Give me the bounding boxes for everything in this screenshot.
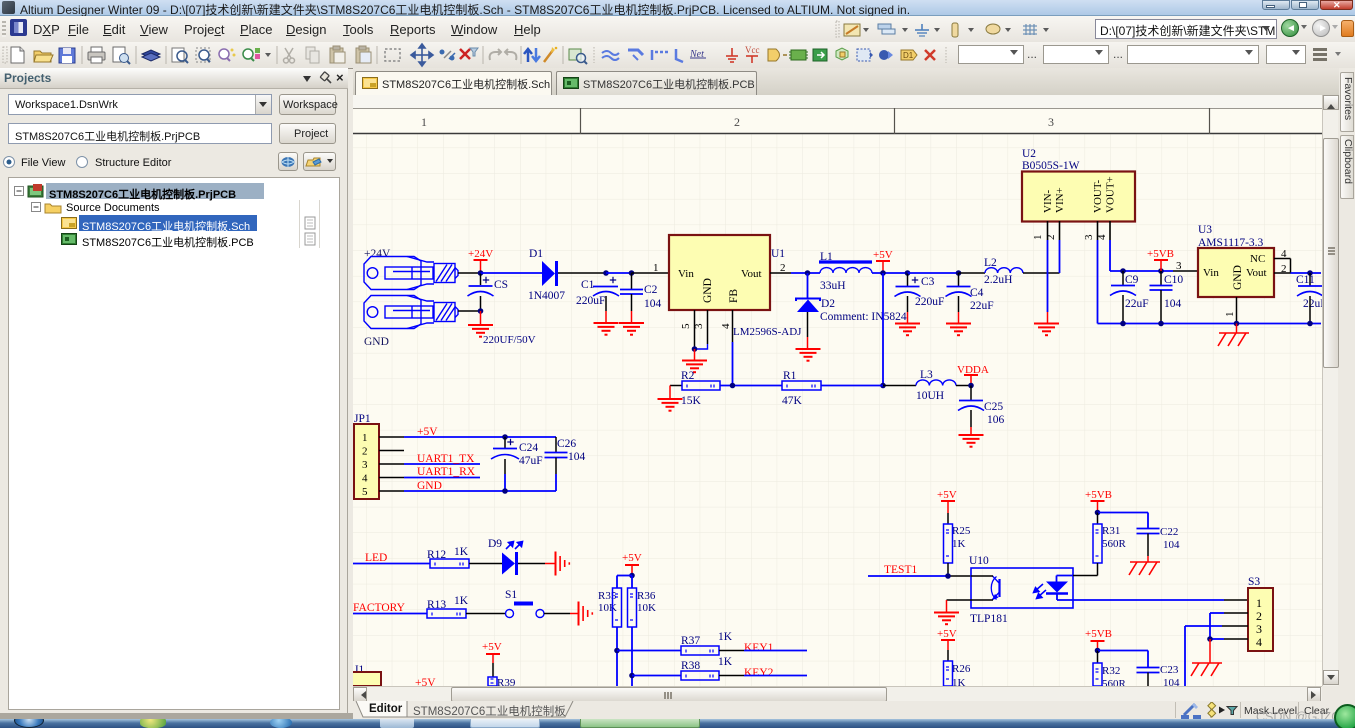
svg-text:+5V: +5V [417, 426, 438, 438]
icon designator tag [901, 50, 917, 60]
wire +5VB rail [1110, 270, 1173, 272]
icon cross ref [879, 50, 893, 60]
svg-text:104: 104 [1163, 539, 1180, 551]
capacitor C26 104 [555, 437, 557, 452]
wire C4 to L2 [959, 272, 986, 274]
svg-text:1: 1 [362, 432, 368, 444]
svg-text:+5V: +5V [937, 489, 957, 501]
svg-text:R32: R32 [1102, 665, 1120, 677]
svg-text:GND: GND [1232, 265, 1244, 290]
svg-text:R37: R37 [681, 635, 700, 647]
icon bus-entry [652, 50, 668, 60]
icon ic part [789, 50, 808, 60]
op-amp U1 LM2596S-ADJ regulator body [669, 235, 770, 310]
svg-text:Vout: Vout [741, 268, 762, 280]
ground below C1 [605, 311, 607, 323]
header [0, 68, 348, 89]
junction C9 top [1120, 268, 1126, 274]
svg-text:C11: C11 [1296, 274, 1315, 286]
workspace row [8, 94, 272, 115]
svg-text:1K: 1K [952, 538, 966, 550]
svg-text:1K: 1K [718, 656, 733, 668]
svg-text:D1: D1 [529, 248, 543, 260]
ground below U10 [934, 612, 959, 614]
junction +5V rail [880, 270, 886, 276]
ground below U2 pin1 [1034, 323, 1059, 325]
wire L1 to C3/C4 rail [872, 272, 908, 274]
windows taskbar [0, 719, 1355, 728]
svg-text:2: 2 [1256, 609, 1262, 623]
junction S3 gnd [1207, 636, 1213, 642]
power port +5VB [1154, 259, 1168, 261]
svg-text:U1: U1 [771, 248, 785, 260]
svg-text:15K: 15K [681, 395, 702, 407]
wire C1 to C2 [606, 272, 632, 274]
icon print [88, 47, 105, 63]
svg-text:C22: C22 [1160, 526, 1178, 538]
power port +5V above R35/R36 [625, 564, 639, 566]
svg-text:LM2596S-ADJ: LM2596S-ADJ [733, 326, 802, 338]
svg-text:R25: R25 [952, 525, 971, 537]
svg-text:33uH: 33uH [820, 280, 846, 292]
power port +24V [474, 259, 488, 261]
junction C25 [968, 383, 974, 389]
diode D2 IN5824 schottky [807, 273, 809, 298]
svg-text:2: 2 [362, 446, 368, 458]
signal ground after D9 [545, 563, 555, 565]
icon move [411, 44, 433, 66]
icon find-chip [569, 49, 587, 64]
wire KEY2 row [632, 675, 681, 677]
icon updown [524, 48, 540, 62]
svg-text:1: 1 [1032, 235, 1044, 241]
svg-text:3: 3 [1083, 234, 1095, 240]
svg-text:NC: NC [1250, 253, 1265, 265]
right vertical panel tabs [1339, 68, 1355, 713]
svg-text:C26: C26 [557, 438, 576, 450]
svg-text:L3: L3 [920, 369, 933, 381]
wire R31 to U10 [1073, 575, 1098, 577]
svg-text:C10: C10 [1164, 274, 1183, 286]
wire pin3 to pin5 junction [695, 344, 708, 349]
wire C3 to C4 [908, 272, 959, 274]
junction C1 [603, 270, 609, 276]
earth ground below S3 [1209, 639, 1211, 663]
svg-text:2: 2 [780, 262, 786, 274]
svg-text:+5VB: +5VB [1147, 248, 1174, 260]
svg-text:R36: R36 [637, 590, 656, 602]
left bottom gray strip [0, 713, 353, 719]
svg-text:C9: C9 [1125, 274, 1139, 286]
junction R31/C22 [1095, 510, 1101, 516]
wire U10 output to S3 [1057, 599, 1224, 601]
svg-text:1K: 1K [454, 595, 469, 607]
svg-text:1: 1 [421, 115, 427, 129]
capacitor C11 22uF [1309, 273, 1311, 286]
svg-text:220UF/50V: 220UF/50V [483, 334, 536, 346]
svg-text:106: 106 [987, 414, 1005, 426]
junction C24 bottom [502, 488, 508, 494]
capacitor C22 104 [1147, 513, 1149, 529]
tree area [8, 177, 340, 710]
U2 pin3 VOUT- wire to isolated gnd rail [1097, 221, 1099, 240]
junction C11 [1307, 270, 1313, 276]
svg-text:GND: GND [417, 480, 442, 492]
icon new [11, 47, 24, 63]
svg-text:+24V: +24V [364, 248, 391, 260]
icon gate [768, 49, 787, 61]
svg-text:+5V: +5V [622, 552, 642, 564]
ground left of R2 [669, 386, 671, 400]
svg-text:CS: CS [494, 279, 508, 291]
icon redo (disabled) [505, 49, 516, 60]
junction TEST1/R25 [945, 573, 951, 579]
svg-text:KEY2: KEY2 [744, 667, 774, 679]
U3 Vout wire [1274, 272, 1291, 274]
junction C3 [905, 270, 911, 276]
icon zoom-selected [219, 49, 236, 62]
svg-text:104: 104 [1164, 298, 1182, 310]
icon save [59, 48, 75, 63]
svg-text:R38: R38 [681, 660, 700, 672]
main toolbar [0, 42, 1355, 69]
row4 pcb [61, 232, 78, 246]
junction R35/R36 feed [629, 573, 635, 579]
svg-text:KEY1: KEY1 [744, 642, 774, 654]
U2 pin1 VIN- wire to ground [1047, 221, 1049, 240]
svg-text:C2: C2 [644, 284, 658, 296]
icon zoom-area [196, 48, 210, 62]
svg-text:3: 3 [1256, 622, 1262, 636]
svg-text:R2: R2 [681, 370, 695, 382]
title bar [0, 0, 1355, 16]
power port +5VB above R31 [1091, 500, 1105, 502]
editor bottom tab row [353, 701, 1355, 719]
svg-text:C24: C24 [519, 442, 538, 454]
wire R35 down to KEY1 [616, 627, 618, 686]
S3 pin3 wire [1222, 625, 1248, 627]
ground below C2 [631, 311, 633, 323]
power port +5VB above R32 [1091, 640, 1105, 642]
capacitor C3 220uF [907, 273, 909, 286]
icon copy (disabled) [306, 47, 319, 63]
transistor inside U10 [991, 577, 996, 600]
svg-text:C23: C23 [1160, 664, 1179, 676]
junction KEY1 [614, 648, 620, 654]
junction R32/C23 [1095, 648, 1101, 654]
svg-text:220uF: 220uF [576, 295, 605, 307]
icon paste-special [356, 46, 371, 63]
capacitor C9 22uF [1122, 271, 1124, 285]
svg-text:10K: 10K [637, 602, 656, 614]
capacitor C23 104 (cut off) [1147, 651, 1149, 668]
resistor R36 10K [631, 576, 633, 589]
svg-text:+5V: +5V [482, 641, 502, 653]
svg-text:VIN-: VIN- [1042, 189, 1054, 213]
svg-text:22uF: 22uF [970, 300, 994, 312]
svg-text:4: 4 [720, 323, 732, 329]
svg-text:104: 104 [1163, 677, 1180, 686]
icon layer-book [142, 50, 160, 61]
icon preview [113, 47, 130, 64]
svg-text:560R: 560R [1102, 678, 1127, 686]
icon wire tool [602, 51, 619, 60]
svg-text:R35: R35 [598, 590, 617, 602]
green taskbar icon overlapping [1334, 704, 1355, 728]
icon no-erc [925, 50, 935, 60]
wire FB pin4 down to divider [732, 310, 734, 342]
svg-text:LED: LED [365, 552, 387, 564]
svg-text:R31: R31 [1102, 525, 1120, 537]
wire JP1 pin3 UART1_TX [404, 463, 480, 465]
svg-text:47uF: 47uF [519, 455, 543, 467]
svg-text:VOUT+: VOUT+ [1105, 176, 1117, 213]
svg-text:22uF: 22uF [1303, 298, 1322, 310]
icon zoom-grid [243, 48, 260, 61]
svg-text:2.2uH: 2.2uH [984, 274, 1012, 286]
ground below C4 [958, 312, 960, 324]
wire U10 left-bottom to ground [947, 599, 972, 601]
connector CON1 (+24V barrel jack) [364, 257, 458, 290]
svg-text:VIN+: VIN+ [1054, 187, 1066, 213]
power port +5V above R26 [941, 639, 955, 641]
svg-text:Comment: IN5824: Comment: IN5824 [820, 311, 907, 323]
svg-text:C1: C1 [581, 279, 595, 291]
svg-text:3: 3 [362, 459, 368, 471]
wire to C22 [1098, 512, 1149, 514]
sheet zone ruler [353, 108, 1322, 134]
svg-text:C25: C25 [984, 401, 1003, 413]
svg-text:Vcc: Vcc [745, 45, 760, 55]
svg-text:1K: 1K [718, 631, 733, 643]
svg-text:3: 3 [1048, 115, 1054, 129]
project row [8, 123, 272, 144]
S3 pin4 wire [1224, 638, 1248, 640]
junction C24 top [502, 434, 508, 440]
icon cut (disabled) [284, 48, 295, 63]
icon clear-filter [460, 48, 478, 59]
svg-text:D9: D9 [488, 538, 502, 550]
resistor R35 10K [616, 576, 618, 589]
svg-text:UART1_TX: UART1_TX [417, 453, 475, 465]
svg-text:C3: C3 [921, 276, 935, 288]
wire JP1 pin4 UART1_RX [404, 477, 480, 479]
svg-text:1N4007: 1N4007 [528, 290, 565, 302]
icon select-rect [385, 49, 400, 61]
svg-text:5: 5 [362, 486, 368, 498]
icon open [34, 51, 53, 62]
wire conn2 to CS [458, 310, 481, 312]
svg-text:FACTORY: FACTORY [353, 602, 406, 614]
wire FACTORY to R13 [353, 613, 427, 615]
svg-text:Vout: Vout [1246, 267, 1267, 279]
bottom horizontal scrollbar [353, 686, 1322, 701]
junction C4 [956, 270, 962, 276]
junction KEY2 [629, 673, 635, 679]
capacitor C25 106 [970, 386, 972, 401]
svg-text:10UH: 10UH [916, 390, 944, 402]
svg-text:R39: R39 [497, 677, 516, 686]
wire U1 Vout to L1 [770, 272, 791, 274]
svg-text:VDDA: VDDA [957, 364, 989, 376]
wire L2 to U2 VIN+ [1023, 272, 1060, 274]
svg-text:3: 3 [1176, 260, 1182, 272]
right scrollbar of schematic [1322, 95, 1338, 686]
svg-text:2: 2 [734, 115, 740, 129]
power port +5V (buck output) [876, 260, 890, 262]
svg-text:1K: 1K [952, 677, 966, 686]
svg-text:S1: S1 [505, 589, 517, 601]
signal ground after S1 [570, 613, 578, 615]
capacitor CS 220UF/50V [480, 273, 482, 285]
svg-text:10K: 10K [598, 602, 617, 614]
power port +5V above R25 [941, 500, 955, 502]
junction D2 [805, 270, 811, 276]
svg-text:B0505S-1W: B0505S-1W [1022, 160, 1080, 172]
LED inside U10 [1056, 576, 1058, 583]
svg-text:104: 104 [644, 298, 662, 310]
svg-text:+24V: +24V [468, 248, 493, 260]
resistor R39 (cut off) [488, 677, 497, 686]
svg-text:GND: GND [702, 278, 714, 303]
wire R1 to +5V rail [821, 385, 883, 387]
power port +5V above R39 [486, 653, 500, 655]
svg-text:+5VB: +5VB [1085, 628, 1112, 640]
icon net label [689, 49, 706, 60]
svg-text:4: 4 [1256, 635, 1262, 649]
svg-text:VOUT-: VOUT- [1092, 179, 1104, 213]
wire +24V node to D1 [481, 272, 543, 274]
capacitor C24 47uF [504, 437, 506, 448]
row1 project [14, 183, 334, 200]
junction VDDA feed [880, 383, 886, 389]
ground below D2 [807, 337, 809, 349]
svg-text:104: 104 [568, 451, 586, 463]
svg-text:+5V: +5V [937, 628, 957, 640]
wire conn1 to +24V node [458, 272, 481, 274]
svg-text:R26: R26 [952, 663, 971, 675]
icon undo (disabled) [490, 49, 501, 60]
svg-text:UART1_RX: UART1_RX [417, 466, 476, 478]
svg-text:TEST1: TEST1 [884, 564, 917, 576]
svg-text:U3: U3 [1198, 224, 1212, 236]
ground below C3 [907, 312, 909, 324]
svg-text:GND: GND [364, 336, 389, 348]
svg-text:1K: 1K [454, 546, 469, 558]
U2 pin4 VOUT+ wire [1109, 221, 1111, 240]
icon sheet entry [836, 48, 848, 60]
wire R2 to R1 [720, 385, 782, 387]
icon part tool [676, 49, 683, 62]
svg-text:C4: C4 [970, 287, 984, 299]
svg-text:4: 4 [362, 473, 368, 485]
svg-text:U2: U2 [1022, 148, 1036, 160]
wire JP1 pin1 +5V [404, 436, 556, 438]
svg-text:Vin: Vin [1203, 267, 1219, 279]
capacitor C2 104 [631, 273, 633, 290]
wire +5V rail down to divider/L3 [882, 273, 884, 386]
ground below CS [480, 311, 482, 325]
icon gnd port [726, 48, 738, 62]
icon zoom-doc [172, 48, 188, 63]
junction C10 top [1158, 268, 1164, 274]
svg-text:Vin: Vin [678, 268, 694, 280]
svg-text:1: 1 [1256, 596, 1262, 610]
svg-text:1: 1 [1224, 312, 1236, 318]
svg-text:+5VB: +5VB [1085, 489, 1112, 501]
icon sheet symbol [813, 49, 827, 61]
svg-text:+5V: +5V [415, 677, 436, 686]
S3 pin2 wire [1224, 612, 1248, 614]
wire R36 down to KEY2 [631, 627, 633, 686]
earth ground below U3 [1236, 324, 1238, 334]
right mini toolbar [830, 16, 1090, 42]
earth ground below C22 [1147, 556, 1149, 562]
empty combos on right [958, 45, 1024, 64]
svg-text:22uF: 22uF [1125, 298, 1149, 310]
svg-text:+5V: +5V [873, 249, 893, 261]
svg-text:FB: FB [728, 289, 740, 303]
row2 folder [31, 199, 331, 216]
svg-text:D1: D1 [903, 51, 914, 60]
svg-text:R1: R1 [783, 370, 797, 382]
icon paste [330, 46, 345, 63]
icon device sheet [857, 49, 873, 61]
svg-text:47K: 47K [782, 395, 803, 407]
menu bar [0, 16, 1355, 42]
svg-text:560R: 560R [1102, 538, 1127, 550]
wire TEST1 [868, 575, 948, 577]
junction C2 [629, 270, 635, 276]
wire KEY1 row [617, 650, 681, 652]
ground below C25 [970, 427, 972, 435]
isolated ground rail [1098, 323, 1322, 325]
icon cross-probe [440, 50, 456, 61]
svg-text:220uF: 220uF [915, 296, 944, 308]
row3 sch selected [79, 215, 257, 231]
wire LED to R12 [353, 563, 430, 565]
icon bus tool [628, 50, 643, 60]
svg-text:1: 1 [653, 262, 659, 274]
icon vcc port [745, 45, 760, 63]
capacitor C4 22uF [958, 273, 960, 286]
U3 NC pin wire [1274, 258, 1291, 260]
junction +24V node [478, 270, 484, 276]
radio row [1, 154, 201, 170]
power port VDDA [964, 374, 978, 376]
svg-text:TLP181: TLP181 [970, 613, 1008, 625]
wire JP1 pin5 GND [404, 490, 556, 492]
svg-text:D2: D2 [821, 298, 835, 310]
svg-text:U10: U10 [969, 555, 989, 567]
junction FB node [730, 383, 736, 389]
icon wand [544, 47, 557, 62]
wire C2 to U1 pin1 [632, 272, 670, 274]
svg-text:S3: S3 [1248, 576, 1260, 588]
capacitor C10 104 [1160, 271, 1162, 285]
wire D1 to C1 [558, 272, 606, 274]
wire to L3 [883, 385, 916, 387]
svg-text:5: 5 [680, 323, 692, 329]
U2 pin2 VIN+ wire [1059, 221, 1061, 240]
ground below U1 GND pins [694, 349, 696, 360]
